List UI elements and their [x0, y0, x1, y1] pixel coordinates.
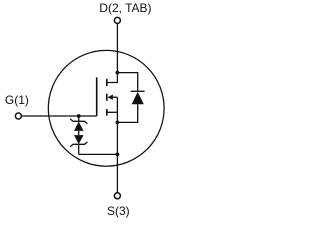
- node source rail junction: [116, 153, 120, 157]
- diode D1 triangle: [132, 92, 144, 104]
- zener diode Z1 cathode bar: [70, 119, 87, 124]
- transistor Q1 drain channel dash: [106, 79, 108, 86]
- zener diode Z2 triangle: [74, 135, 84, 144]
- node diode bottom junction: [116, 121, 120, 125]
- wire diode bottom lead: [117, 104, 137, 122]
- zener diode Z2 cathode bar: [70, 142, 87, 147]
- case circle outline: [48, 50, 164, 166]
- wire zener stack bottom: [78, 144, 80, 154]
- wire source rail: [79, 153, 118, 155]
- transistor Q1 body channel dash: [106, 94, 108, 101]
- svg-text:G(1): G(1): [5, 93, 29, 107]
- node drain junction: [116, 71, 120, 75]
- wire source vertical: [116, 97, 118, 193]
- svg-text:D(2, TAB): D(2, TAB): [99, 1, 151, 15]
- wire gate lead: [21, 115, 96, 117]
- transistor Q1 source channel dash: [106, 109, 108, 116]
- node gate junction: [77, 114, 81, 118]
- transistor Q1 body arrow: [108, 95, 113, 100]
- wire diode top lead: [117, 73, 137, 92]
- svg-text:S(3): S(3): [107, 204, 130, 218]
- wire drain from terminal D: [116, 24, 118, 73]
- terminal G: [15, 113, 21, 119]
- wire source lead: [107, 111, 118, 113]
- wire between zeners: [78, 131, 80, 135]
- diode D1 cathode bar: [131, 90, 145, 92]
- wire drain lead to MOSFET: [107, 73, 118, 83]
- transistor Q1 gate bar: [96, 77, 98, 116]
- wire body lead: [113, 96, 118, 98]
- terminal D: [114, 17, 120, 23]
- zener diode Z1 triangle: [74, 122, 84, 131]
- terminal S: [114, 193, 120, 199]
- wire zener stack top: [78, 116, 80, 121]
